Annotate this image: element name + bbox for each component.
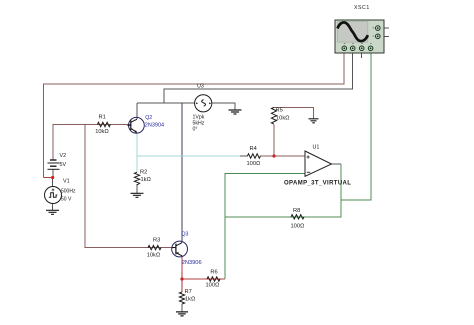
svg-text:V2: V2	[60, 153, 67, 159]
svg-text:0°: 0°	[193, 126, 198, 132]
svg-text:Q3: Q3	[182, 231, 189, 237]
svg-text:1Vpk: 1Vpk	[193, 114, 205, 120]
svg-text:R7: R7	[185, 289, 192, 295]
svg-text:XSC1: XSC1	[354, 5, 370, 11]
svg-text:5V: 5V	[60, 162, 67, 168]
svg-text:500Hz: 500Hz	[61, 188, 76, 194]
svg-text:50 V: 50 V	[61, 196, 72, 202]
svg-text:R3: R3	[153, 238, 160, 244]
svg-text:V1: V1	[63, 179, 70, 185]
svg-text:R1: R1	[99, 115, 106, 121]
svg-text:2N3906: 2N3906	[182, 260, 202, 266]
svg-text:100Ω: 100Ω	[247, 161, 261, 167]
svg-text:100Ω: 100Ω	[206, 282, 220, 288]
svg-text:R5: R5	[276, 108, 283, 114]
svg-text:R4: R4	[250, 146, 257, 152]
svg-text:Q2: Q2	[145, 115, 152, 121]
svg-text:OPAMP_3T_VIRTUAL: OPAMP_3T_VIRTUAL	[284, 181, 351, 187]
svg-text:10kΩ: 10kΩ	[147, 252, 161, 258]
svg-text:R6: R6	[210, 270, 217, 276]
svg-text:R8: R8	[293, 208, 300, 214]
svg-text:10kΩ: 10kΩ	[95, 129, 109, 135]
svg-text:100Ω: 100Ω	[291, 223, 305, 229]
svg-text:1kΩ: 1kΩ	[141, 177, 152, 183]
svg-text:1kΩ: 1kΩ	[185, 296, 196, 302]
svg-text:U3: U3	[197, 84, 204, 90]
svg-text:2N3904: 2N3904	[145, 122, 164, 128]
svg-text:10kΩ: 10kΩ	[276, 116, 290, 122]
svg-text:R2: R2	[140, 169, 147, 175]
svg-text:U1: U1	[313, 144, 320, 150]
